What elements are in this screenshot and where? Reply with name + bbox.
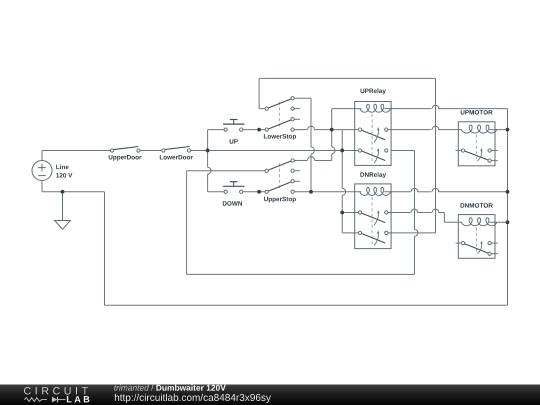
junction DNRelay coil row / LowerStop branch [309, 190, 313, 194]
UPMOTOR internal switch [455, 149, 461, 151]
relay U2 DNRelay [355, 184, 391, 249]
junction UP button to LowerStop [257, 128, 261, 132]
UPRelay contact 1 [362, 130, 386, 140]
junction DOWN button to UpperStop [257, 190, 261, 194]
DNRelay contact 1 [362, 213, 386, 223]
junction UPMOTOR output to neutral [506, 128, 510, 132]
wire DNRelay coil output to right vertical (hops x=414.5, x=435.5) [384, 191, 410, 193]
relay U1 UPRelay [355, 102, 391, 166]
DPDT switch UpperStop [279, 163, 281, 188]
wire bottom rail [105, 304, 508, 306]
pushbutton DOWN [223, 185, 245, 187]
DNRelay label [360, 172, 386, 178]
ground [62, 192, 64, 221]
switch LowerDoor [165, 147, 190, 150]
wire DNRelay contact2 out to x=435.5 vertical (seal wire) [386, 232, 435, 234]
wire node A up to UP button [207, 130, 209, 151]
footer url text [115, 394, 271, 403]
wire vertical x=342.2 rail junction to DNRelay contacts (hops coil row) [341, 130, 343, 189]
wire source bottom to ground node [41, 181, 43, 192]
wire UPRelay coil input from junction [332, 108, 362, 110]
DNRelay contact 2 [362, 234, 386, 244]
wire right vertical x=507 [507, 109, 509, 306]
wire LowerStop top common elbow to top rail [259, 108, 267, 110]
CircuitLab logo circuit doodle [24, 398, 47, 402]
wire DOWN button to UpperStop common [241, 191, 267, 193]
wire source top to UpperDoor [41, 150, 43, 160]
junction hot rail / seal branch [340, 149, 344, 153]
wire main rail node A to UPRelay contact2 [208, 149, 360, 151]
wire DNRelay contact1 out to DNMOTOR coil with jog (hops x=414.5, x=435.5) [386, 212, 410, 214]
wire UPRelay coil output to right vertical (hops x=435.5) [384, 108, 431, 110]
wire left vertical x=186.6 down [186, 171, 188, 275]
wire LowerDoor to node A [189, 149, 208, 151]
DPDT switch LowerStop [279, 102, 281, 127]
wire inner bottom rail [187, 273, 415, 275]
CircuitLab logo text [24, 387, 88, 395]
wire to DNRelay contact2 left [342, 232, 360, 234]
wire top rail [259, 77, 435, 79]
junction UPRelay coil branch node [330, 128, 334, 132]
wire LowerStop bottom throw to UPRelay contact1 (hops x=311) [293, 129, 308, 131]
wire to DNRelay contact1 left [342, 212, 360, 214]
wire UPMOTOR coil output [489, 129, 507, 131]
junction DNMOTOR output to neutral [506, 220, 510, 224]
wire DNMOTOR coil output [489, 221, 507, 223]
wire UpperStop to DNRelay coil input [293, 191, 362, 193]
wire UPRelay contact2 out [391, 149, 415, 151]
DNMOTOR internal switch [455, 242, 461, 244]
junction DNRelay coil output to neutral [506, 190, 510, 194]
voltage source V1 Line 120V [32, 161, 52, 181]
wire node A down to DOWN button (hops rail2) [207, 150, 209, 167]
wire rail2 UpperStop common to left vertical [187, 170, 267, 172]
wire UPRelay contact1 out to UPMOTOR coil (hops x=435.5) [386, 129, 431, 131]
wire UP button to LowerStop common [241, 129, 267, 131]
DNMOTOR label [461, 203, 493, 208]
UPRelay contact 2 [362, 151, 386, 160]
UPRelay label [361, 88, 386, 94]
wire vertical x=414.5 from UPRelay contact2 down (hops seal wire) [414, 150, 416, 229]
pushbutton UP [223, 123, 245, 125]
wire right-top vertical x=435.5 down to DNRelay seal wire [435, 78, 437, 233]
junction at ground node [61, 190, 65, 194]
footer title text [114, 385, 149, 391]
switch UpperDoor [113, 147, 138, 150]
motor M2 DNMOTOR [458, 215, 495, 259]
wire UpperDoor to LowerDoor [139, 149, 164, 151]
UPMOTOR label [461, 110, 493, 115]
wire LowerStop top throw down to DNRelay coil row [293, 97, 311, 99]
junction node A (after door switches) [206, 149, 210, 153]
motor M1 UPMOTOR [458, 122, 495, 166]
wire vertical x=331.7 junction to UpperStop top throw wire [331, 109, 333, 147]
junction DNRelay contact1 branch [340, 211, 344, 215]
footer bar [0, 385, 540, 405]
wire UpperStop top throw to x=331.7 (hops x=311) [293, 159, 308, 161]
